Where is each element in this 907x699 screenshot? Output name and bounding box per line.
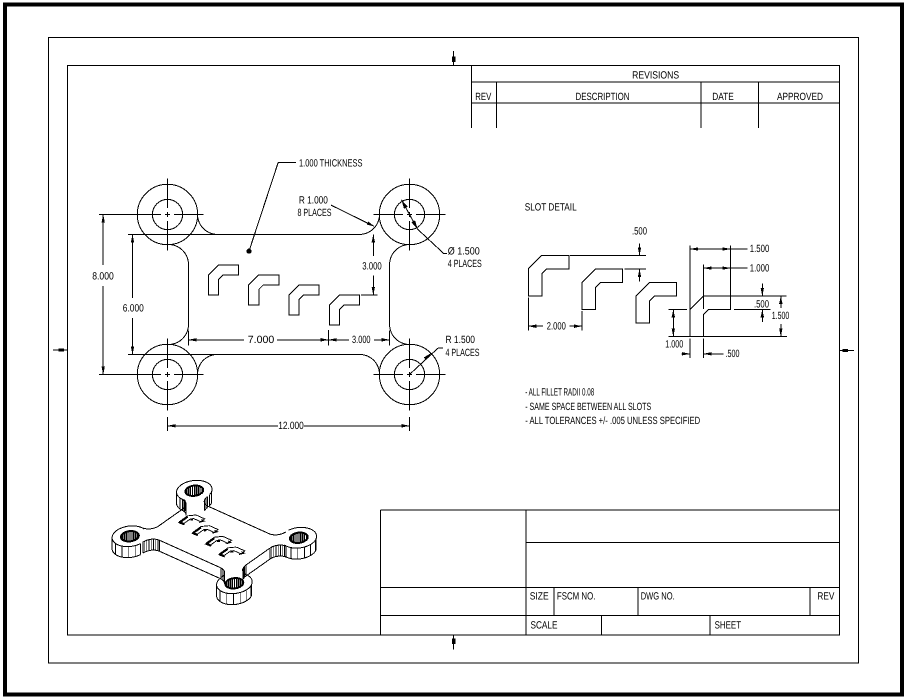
- approved column header: [777, 91, 823, 103]
- main view bottom edge with extension: [128, 353, 360, 355]
- iso hole at lobe (-6,-4): [121, 531, 139, 541]
- svg-text:FSCM NO.: FSCM NO.: [557, 591, 596, 603]
- svg-text:.500: .500: [632, 225, 647, 237]
- fillet bottom-left lower: [198, 354, 218, 374]
- detail dim 1.000 top: [704, 262, 770, 274]
- main view slot 1: [208, 265, 238, 295]
- dim 8.000: [92, 215, 114, 375]
- detail dim .500 bottom ext lines: [690, 338, 704, 358]
- iso view bottom edges: [112, 492, 316, 605]
- iso hole at lobe (6,4): [290, 533, 308, 543]
- svg-text:APPROVED: APPROVED: [777, 91, 823, 103]
- detail dim 1.500 right ext lines: [669, 296, 788, 337]
- svg-text:.500: .500: [726, 348, 740, 360]
- main view top-right centerlines: [374, 179, 446, 251]
- detail dim 1.500 ext lines: [690, 246, 731, 310]
- svg-text:8 PLACES: 8 PLACES: [298, 207, 332, 219]
- main view slot 2: [249, 275, 279, 305]
- svg-text:REV: REV: [817, 591, 834, 603]
- dim 8.000 extension lines: [99, 214, 138, 374]
- top centering mark: [452, 51, 455, 66]
- detail dim .500 step ext lines: [570, 255, 646, 269]
- detail dim 1.000 left: [665, 309, 683, 350]
- svg-text:4 PLACES: 4 PLACES: [446, 347, 480, 359]
- iso slot 2: [193, 526, 218, 536]
- svg-text:6.000: 6.000: [123, 303, 144, 315]
- svg-text:SCALE: SCALE: [531, 620, 558, 632]
- svg-text:7.000: 7.000: [248, 334, 275, 346]
- revisions table frame: [472, 65, 840, 128]
- main view bottom-right hole: [394, 359, 424, 389]
- main view slot 3: [289, 285, 319, 315]
- detail dim .500 bottom: [682, 348, 740, 360]
- main view top edge with extension: [128, 233, 360, 235]
- dim 6.000: [123, 234, 144, 354]
- main view top-left centerlines: [132, 179, 204, 251]
- svg-text:SHEET: SHEET: [715, 620, 742, 632]
- svg-text:DATE: DATE: [712, 91, 734, 103]
- revisions header text: [632, 70, 679, 82]
- fillet bottom-right side: [390, 325, 410, 345]
- dim 3.000 vertical extension: [361, 294, 378, 296]
- svg-text:3.000: 3.000: [362, 261, 382, 273]
- note tolerances: [525, 415, 700, 427]
- main view right edge: [389, 265, 391, 325]
- title block frame: [381, 510, 840, 635]
- svg-text:3.000: 3.000: [352, 334, 371, 346]
- iso view top face outline: [112, 480, 316, 593]
- dim 12.000 extension lines: [168, 417, 410, 431]
- svg-text:12.000: 12.000: [278, 420, 304, 432]
- main view right edge lower extension: [389, 331, 391, 346]
- description column header: [576, 91, 630, 103]
- main view top-left hole: [152, 199, 182, 229]
- svg-text:DESCRIPTION: DESCRIPTION: [576, 91, 630, 103]
- leader R 1.500 4 PLACES: [410, 334, 480, 374]
- svg-text:1.500: 1.500: [772, 310, 790, 322]
- rev column header: [475, 91, 491, 103]
- iso hole at lobe (-6,4): [185, 486, 203, 496]
- dim 7.000: [189, 334, 329, 346]
- detail slot 4: [690, 296, 731, 337]
- svg-text:SLOT DETAIL: SLOT DETAIL: [525, 202, 577, 214]
- main view left edge: [188, 265, 190, 325]
- svg-text:.500: .500: [754, 298, 769, 310]
- detail dim .500 right: [761, 284, 763, 323]
- left centering mark: [53, 348, 68, 351]
- detail dim .500 right arrows: [754, 288, 769, 318]
- fillet top-right side: [390, 245, 410, 265]
- fillet top-left upper: [198, 214, 218, 234]
- main view bottom-left lobe circle: [137, 344, 197, 404]
- iso slot 3: [206, 536, 231, 546]
- dim 12.000: [168, 420, 410, 432]
- svg-text:SIZE: SIZE: [530, 591, 549, 603]
- fillet bottom-left side: [169, 325, 189, 345]
- svg-text:DWG NO.: DWG NO.: [641, 591, 675, 603]
- main view left edge lower extension: [188, 331, 190, 346]
- detail dim 2.000 ext lines: [528, 298, 582, 331]
- svg-text:2.000: 2.000: [547, 320, 566, 332]
- iso slot 4: [220, 547, 245, 557]
- main view slot 4: [329, 295, 359, 325]
- note fillet radii: [525, 387, 594, 399]
- scale label: [531, 620, 558, 632]
- date column header: [712, 91, 734, 103]
- detail dim 1.500 top: [690, 243, 769, 255]
- main view bottom-left hole: [152, 359, 182, 389]
- svg-text:1.000: 1.000: [750, 262, 770, 274]
- svg-text:- ALL TOLERANCES +/- .005 UNLE: - ALL TOLERANCES +/- .005 UNLESS SPECIFI…: [525, 415, 700, 427]
- leader R 1.000 8 PLACES: [298, 195, 375, 227]
- svg-text:- ALL FILLET RADII 0.08: - ALL FILLET RADII 0.08: [525, 387, 594, 399]
- detail slot 1: [528, 255, 569, 296]
- svg-text:8.000: 8.000: [92, 270, 114, 282]
- inner drawing border: [68, 66, 840, 636]
- main view top-left lobe circle: [137, 184, 197, 244]
- main view top-right hole: [394, 199, 424, 229]
- iso slot 1: [180, 515, 205, 525]
- fillet top-left side: [169, 245, 189, 265]
- detail dim 1.000 ext line: [703, 265, 705, 310]
- iso view side facet hatching: [116, 497, 316, 605]
- detail slot 2: [582, 269, 623, 310]
- svg-text:1.500: 1.500: [750, 243, 770, 255]
- svg-text:Ø 1.500: Ø 1.500: [448, 246, 480, 258]
- right centering mark: [840, 349, 854, 352]
- size label: [530, 591, 549, 603]
- rev label: [817, 591, 834, 603]
- slot detail title: [525, 202, 577, 214]
- dim 3.000 vertical: [362, 234, 382, 295]
- detail dim 1.500 right: [772, 296, 790, 337]
- detail dim 2.000: [528, 320, 582, 332]
- svg-text:REVISIONS: REVISIONS: [632, 70, 679, 82]
- detail dim .500 right ext lines: [731, 296, 771, 310]
- fscm no label: [557, 591, 596, 603]
- dwg no label: [641, 591, 675, 603]
- svg-text:1.000: 1.000: [665, 338, 683, 350]
- svg-text:4 PLACES: 4 PLACES: [448, 258, 482, 270]
- middle sheet border: [49, 38, 859, 664]
- iso hole at lobe (6,-4): [226, 578, 244, 588]
- fillet top-right upper: [360, 214, 380, 234]
- main view bottom-right centerlines: [374, 339, 446, 411]
- svg-text:1.000 THICKNESS: 1.000 THICKNESS: [299, 157, 363, 169]
- main view bottom-right lobe circle: [379, 344, 439, 404]
- fillet bottom-right lower: [360, 354, 380, 374]
- svg-text:R 1.000: R 1.000: [299, 195, 328, 207]
- leader dia 1.500 4 PLACES: [402, 200, 482, 270]
- note same space: [525, 401, 651, 413]
- main view top-right lobe circle: [379, 184, 439, 244]
- dim 3.000 horizontal: [329, 334, 390, 346]
- main view bottom-left centerlines: [132, 339, 204, 411]
- detail dim 1.000 left ext line: [669, 308, 688, 310]
- leader 1.000 THICKNESS: [246, 157, 362, 253]
- svg-text:- SAME SPACE BETWEEN ALL SLOTS: - SAME SPACE BETWEEN ALL SLOTS: [525, 401, 651, 413]
- dim 3.000 horizontal extension: [328, 330, 330, 346]
- bottom centering mark: [452, 635, 455, 650]
- sheet label: [715, 620, 742, 632]
- svg-text:REV: REV: [475, 91, 491, 103]
- detail slot 3: [636, 282, 677, 323]
- svg-text:R 1.500: R 1.500: [446, 334, 476, 346]
- detail dim .500 step: [632, 225, 647, 281]
